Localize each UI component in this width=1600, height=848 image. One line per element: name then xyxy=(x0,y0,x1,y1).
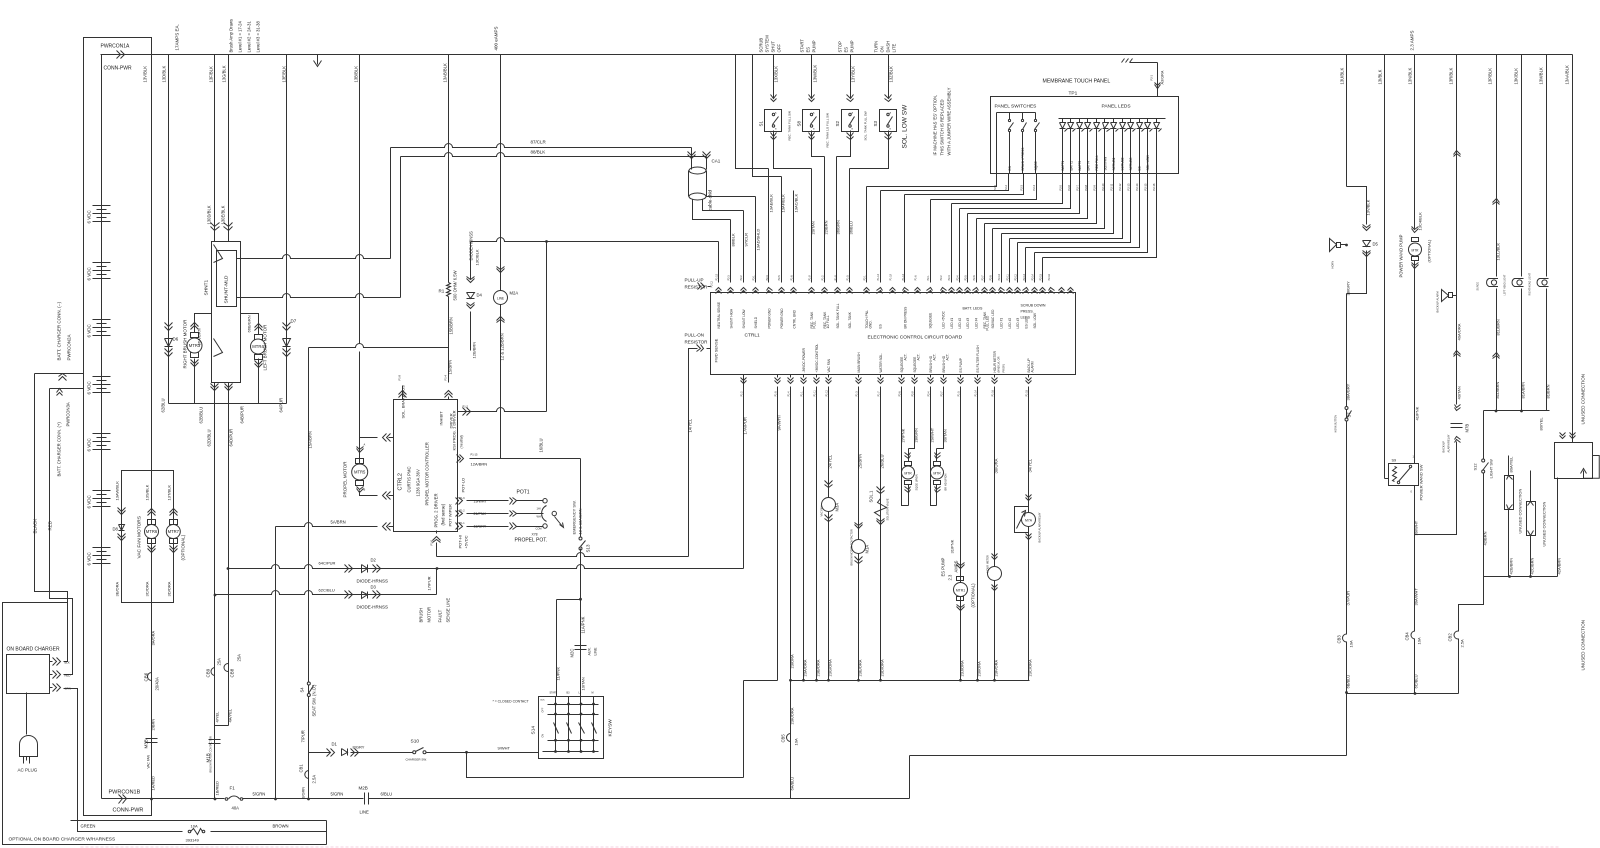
svg-text:SO/VAC LED: SO/VAC LED xyxy=(991,309,995,329)
svg-text:P2-14: P2-14 xyxy=(1135,183,1139,190)
svg-text:OFF: OFF xyxy=(777,44,782,53)
svg-text:10A: 10A xyxy=(1349,640,1354,647)
svg-text:POWER WAND PUMP: POWER WAND PUMP xyxy=(1399,234,1404,277)
svg-text:6C/BLU: 6C/BLU xyxy=(1414,674,1419,688)
svg-text:SURGE: SURGE xyxy=(1477,282,1480,291)
svg-text:6/BLU: 6/BLU xyxy=(381,792,393,797)
svg-text:6 VDC: 6 VDC xyxy=(87,551,92,565)
svg-text:13I/BLK: 13I/BLK xyxy=(1378,69,1383,84)
svg-text:+5VDC: +5VDC xyxy=(464,535,469,548)
svg-text:20/TAN: 20/TAN xyxy=(811,221,816,234)
svg-text:(OPTIONAL): (OPTIONAL) xyxy=(181,534,186,560)
svg-text:23I/ORA: 23I/ORA xyxy=(977,661,982,677)
svg-text:CURTIS PMC: CURTIS PMC xyxy=(407,467,412,493)
svg-text:EMERGENCY SW.: EMERGENCY SW. xyxy=(572,500,577,534)
svg-text:P2-12: P2-12 xyxy=(711,280,714,287)
svg-text:P1-5: P1-5 xyxy=(957,391,960,397)
svg-text:PWRCON1B: PWRCON1B xyxy=(109,790,141,796)
svg-text:DIODE-HRNSS: DIODE-HRNSS xyxy=(357,579,389,584)
svg-text:23G/ORA: 23G/ORA xyxy=(828,659,833,677)
svg-text:P2-9: P2-9 xyxy=(911,391,914,397)
svg-text:S14: S14 xyxy=(531,726,537,735)
svg-text:M2C: M2C xyxy=(570,649,575,658)
svg-text:ON: ON xyxy=(880,46,885,52)
svg-text:VAC FAN MOTORS: VAC FAN MOTORS xyxy=(137,516,143,558)
svg-text:CONN-PWR: CONN-PWR xyxy=(113,808,144,814)
svg-text:ES: ES xyxy=(844,47,849,53)
svg-text:6 VDC: 6 VDC xyxy=(87,380,92,394)
svg-text:13U/BLK: 13U/BLK xyxy=(1340,68,1345,85)
svg-text:10A: 10A xyxy=(794,738,799,745)
svg-text:6B/BLU: 6B/BLU xyxy=(1346,675,1351,689)
svg-text:SCRUB DOWN: SCRUB DOWN xyxy=(1021,304,1046,308)
svg-text:P1-8: P1-8 xyxy=(774,391,777,397)
svg-text:23K/ORA: 23K/ORA xyxy=(790,707,795,724)
svg-text:15B/BRN: 15B/BRN xyxy=(449,317,454,334)
svg-text:BR ON PRESS: BR ON PRESS xyxy=(904,307,908,329)
svg-text:88/BLK: 88/BLK xyxy=(531,150,546,155)
svg-text:PANEL SWITCHES: PANEL SWITCHES xyxy=(995,104,1037,110)
svg-text:BATT1: BATT1 xyxy=(1061,161,1065,171)
svg-text:13C4/BLK: 13C4/BLK xyxy=(1418,212,1423,231)
svg-text:MTR: MTR xyxy=(904,472,912,476)
svg-text:FAULT: FAULT xyxy=(438,609,443,622)
svg-text:S9: S9 xyxy=(1392,459,1397,463)
svg-text:S10: S10 xyxy=(411,739,420,745)
svg-text:LED #2: LED #2 xyxy=(958,318,962,329)
svg-text:LEFT BRUSH MOTOR: LEFT BRUSH MOTOR xyxy=(263,324,268,371)
svg-text:13AE/BLK: 13AE/BLK xyxy=(769,194,774,213)
svg-text:MAIN BRUSH: MAIN BRUSH xyxy=(857,352,861,373)
svg-text:13S/BLK: 13S/BLK xyxy=(145,484,150,500)
svg-text:PUMP: PUMP xyxy=(850,40,855,52)
svg-text:P2-3: P2-3 xyxy=(1019,184,1023,190)
svg-text:LED #3: LED #3 xyxy=(966,318,970,329)
svg-text:HOUR METER: HOUR METER xyxy=(986,555,990,573)
svg-text:P2-3: P2-3 xyxy=(948,275,951,281)
svg-text:PANEL LEDS: PANEL LEDS xyxy=(1102,104,1131,110)
svg-text:13D/BLK: 13D/BLK xyxy=(162,66,167,83)
svg-text:SOL. LOW: SOL. LOW xyxy=(1146,155,1150,170)
svg-text:88/BLK: 88/BLK xyxy=(731,233,736,246)
svg-text:RESISTOR: RESISTOR xyxy=(685,340,709,345)
svg-text:B: B xyxy=(364,488,366,492)
svg-text:M2A: M2A xyxy=(510,291,519,296)
svg-text:P1-16: P1-16 xyxy=(991,389,994,396)
svg-text:ACT.: ACT. xyxy=(917,353,921,360)
svg-text:5/GRN: 5/GRN xyxy=(253,792,266,797)
svg-text:P2-7: P2-7 xyxy=(1075,184,1079,190)
svg-text:12A/BRN: 12A/BRN xyxy=(471,462,488,467)
svg-text:SYSTEM: SYSTEM xyxy=(765,35,770,53)
svg-text:BRUSH MOTOR CONTACTOR: BRUSH MOTOR CONTACTOR xyxy=(209,736,213,772)
svg-text:SHUNT HIGH: SHUNT HIGH xyxy=(729,308,733,328)
svg-text:CB2: CB2 xyxy=(1448,633,1453,642)
svg-text:13B/BLK: 13B/BLK xyxy=(354,66,359,83)
svg-text:500 OHM/ 6.5W: 500 OHM/ 6.5W xyxy=(453,270,458,300)
svg-text:ES: ES xyxy=(1008,166,1012,170)
svg-text:1HI: 1HI xyxy=(537,507,541,511)
svg-text:393149: 393149 xyxy=(186,838,200,843)
svg-text:P2-2: P2-2 xyxy=(940,275,943,281)
svg-text:M7B: M7B xyxy=(1465,424,1470,433)
svg-text:6 VDC: 6 VDC xyxy=(87,266,92,280)
svg-text:P1-2: P1-2 xyxy=(460,510,466,513)
svg-text:23D/ORA: 23D/ORA xyxy=(880,659,885,676)
svg-text:66A/GRN: 66A/GRN xyxy=(197,328,202,345)
svg-text:P1-11: P1-11 xyxy=(813,390,816,397)
svg-text:ES FILTER FLUSH: ES FILTER FLUSH xyxy=(976,345,980,373)
svg-text:LED #4: LED #4 xyxy=(975,318,979,329)
svg-text:P1-18: P1-18 xyxy=(1025,389,1028,396)
svg-text:cable-shld: cable-shld xyxy=(708,189,713,210)
svg-text:POT1: POT1 xyxy=(517,490,530,496)
svg-text:CB6: CB6 xyxy=(144,672,149,681)
svg-text:23C/ORA: 23C/ORA xyxy=(1028,659,1033,676)
svg-text:11A/PNK: 11A/PNK xyxy=(581,616,586,633)
svg-text:CB8: CB8 xyxy=(230,668,235,677)
svg-text:P2-1: P2-1 xyxy=(927,275,930,281)
svg-text:SQGE: SQGE xyxy=(1034,161,1038,170)
svg-text:15/BRN: 15/BRN xyxy=(448,360,453,375)
svg-text:S7: S7 xyxy=(1347,412,1352,418)
svg-text:A: A xyxy=(364,443,366,447)
svg-text:D3: D3 xyxy=(371,585,377,590)
svg-text:REC. TANK FULL SW: REC. TANK FULL SW xyxy=(788,111,792,141)
svg-text:INHIBIT: INHIBIT xyxy=(439,411,444,426)
svg-text:P1-2: P1-2 xyxy=(463,405,469,409)
svg-text:MTR5: MTR5 xyxy=(354,470,366,475)
svg-text:ES: ES xyxy=(1138,166,1142,170)
svg-text:P1-6: P1-6 xyxy=(914,275,917,281)
svg-text:D6: D6 xyxy=(173,337,179,342)
svg-text:SO/VFAN: SO/VFAN xyxy=(1104,156,1108,171)
svg-text:38/GRY: 38/GRY xyxy=(1346,281,1351,295)
svg-text:20/40A: 20/40A xyxy=(155,677,160,690)
svg-text:P2-11: P2-11 xyxy=(1006,274,1009,281)
svg-text:M3A: M3A xyxy=(835,503,840,512)
svg-text:SHNT1: SHNT1 xyxy=(204,279,210,295)
svg-text:A3/GRA: A3/GRA xyxy=(1161,70,1165,84)
svg-text:Level #2 = 24-31: Level #2 = 24-31 xyxy=(247,21,252,53)
svg-text:UNUSED CONNECTION: UNUSED CONNECTION xyxy=(1542,501,1547,546)
svg-text:P2-8: P2-8 xyxy=(989,275,992,281)
svg-text:13LL/BLK: 13LL/BLK xyxy=(1496,243,1501,261)
svg-text:P2-7: P2-7 xyxy=(940,391,943,397)
svg-text:23J/ORA: 23J/ORA xyxy=(960,660,965,677)
svg-text:SHUT: SHUT xyxy=(771,41,776,53)
svg-text:81L/BRN: 81L/BRN xyxy=(1496,319,1501,335)
svg-text:P1-9: P1-9 xyxy=(834,275,837,281)
svg-text:P1-1: P1-1 xyxy=(460,522,466,525)
svg-text:130E/BLK: 130E/BLK xyxy=(221,205,226,224)
svg-text:4A/YEL: 4A/YEL xyxy=(228,708,233,722)
svg-text:M3B: M3B xyxy=(144,739,149,748)
svg-text:BATT. CHARGER CONN. (--): BATT. CHARGER CONN. (--) xyxy=(57,301,62,360)
svg-text:P1-2: P1-2 xyxy=(740,391,743,397)
svg-text:CTRL1: CTRL1 xyxy=(745,333,761,339)
svg-text:2.3 AMPS: 2.3 AMPS xyxy=(1410,30,1415,50)
svg-text:P2-5: P2-5 xyxy=(964,275,967,281)
svg-text:P2-7: P2-7 xyxy=(981,275,984,281)
svg-text:9/WHT: 9/WHT xyxy=(498,746,511,751)
svg-text:SHUNT LOW: SHUNT LOW xyxy=(742,309,746,328)
svg-text:SQUEGEE: SQUEGEE xyxy=(929,313,933,329)
svg-text:5/GRN: 5/GRN xyxy=(331,792,344,797)
svg-text:10A: 10A xyxy=(1417,637,1422,644)
svg-text:LED #3: LED #3 xyxy=(1016,318,1020,329)
svg-text:62/BLU: 62/BLU xyxy=(161,399,166,413)
svg-text:CA1: CA1 xyxy=(712,159,721,164)
svg-text:PROPEL POT.: PROPEL POT. xyxy=(515,538,548,544)
svg-text:P1-7: P1-7 xyxy=(877,391,880,397)
svg-text:S8: S8 xyxy=(797,120,802,126)
svg-text:3D/ORA: 3D/ORA xyxy=(166,581,171,596)
svg-text:P2-2: P2-2 xyxy=(740,275,743,281)
svg-text:REC. TANK 1/2 FULL SW: REC. TANK 1/2 FULL SW xyxy=(826,113,830,148)
svg-text:2/BRN: 2/BRN xyxy=(151,719,156,731)
svg-text:ES PUMP: ES PUMP xyxy=(941,557,946,576)
svg-text:ALARM: ALARM xyxy=(1031,361,1035,372)
svg-text:HOUR METER: HOUR METER xyxy=(993,350,997,372)
svg-text:RED: RED xyxy=(48,520,53,530)
svg-text:12B/BRN: 12B/BRN xyxy=(472,342,477,359)
svg-text:GND.: GND. xyxy=(869,320,873,328)
svg-text:26/BLU: 26/BLU xyxy=(880,455,885,469)
svg-text:15A/BRN: 15A/BRN xyxy=(308,431,313,448)
svg-text:SOL. TANK FULL: SOL. TANK FULL xyxy=(836,303,840,328)
svg-text:6 VDC: 6 VDC xyxy=(87,323,92,337)
svg-text:42B/BRN: 42B/BRN xyxy=(1509,558,1514,575)
svg-text:10/TAN: 10/TAN xyxy=(581,677,586,690)
svg-text:CB9: CB9 xyxy=(206,668,211,677)
svg-text:39A/WHT: 39A/WHT xyxy=(1414,588,1419,606)
svg-text:GREEN: GREEN xyxy=(81,824,96,829)
svg-text:42A/BRN: 42A/BRN xyxy=(1557,558,1562,575)
svg-text:CNTRL GND: CNTRL GND xyxy=(792,309,796,328)
svg-text:13AD/SHLD: 13AD/SHLD xyxy=(756,229,761,251)
svg-text:3A/ORA: 3A/ORA xyxy=(151,630,156,645)
svg-text:VAC FAN: VAC FAN xyxy=(147,754,151,768)
svg-text:SHUNT-MLD: SHUNT-MLD xyxy=(224,275,230,304)
svg-text:LINE: LINE xyxy=(497,297,504,301)
svg-text:AMPS: AMPS xyxy=(954,560,959,572)
svg-text:13V/BLK: 13V/BLK xyxy=(1366,199,1371,215)
svg-text:P1-1: P1-1 xyxy=(800,391,803,397)
svg-text:Level #1 = 17-24: Level #1 = 17-24 xyxy=(238,21,243,53)
svg-text:P2-1: P2-1 xyxy=(1150,74,1154,80)
svg-text:FULL LED: FULL LED xyxy=(986,315,990,330)
svg-text:SCRUB3: SCRUB3 xyxy=(1129,157,1133,170)
svg-text:IF MACHINE HAS 'ES' OPTION,: IF MACHINE HAS 'ES' OPTION, xyxy=(933,95,938,156)
svg-text:23B/ORA: 23B/ORA xyxy=(816,659,821,676)
svg-text:S13: S13 xyxy=(586,544,591,553)
svg-text:F1: F1 xyxy=(230,786,236,791)
svg-text:RIGHT BRUSH MOTOR: RIGHT BRUSH MOTOR xyxy=(183,319,188,369)
svg-text:SOL. TANK FULL SW: SOL. TANK FULL SW xyxy=(864,111,868,140)
svg-text:13T/BLK: 13T/BLK xyxy=(166,485,171,501)
svg-text:WITH A JUMPER WIRE ASSEMBLY: WITH A JUMPER WIRE ASSEMBLY xyxy=(947,87,952,155)
svg-text:3C/ORA: 3C/ORA xyxy=(145,581,150,596)
svg-text:27/PNK: 27/PNK xyxy=(901,428,906,442)
svg-text:P2-15: P2-15 xyxy=(1039,273,1042,280)
svg-text:P1-4: P1-4 xyxy=(787,391,790,397)
svg-text:SENSE LINE: SENSE LINE xyxy=(446,598,451,623)
svg-text:AC PLUG: AC PLUG xyxy=(18,768,38,773)
svg-text:LINE: LINE xyxy=(360,810,370,815)
svg-text:P1-8: P1-8 xyxy=(398,374,402,380)
svg-text:P1-3: P1-3 xyxy=(855,391,858,397)
svg-text:LED #2: LED #2 xyxy=(1008,318,1012,329)
svg-text:P2-3: P2-3 xyxy=(766,275,769,281)
svg-text:(OPTIONAL): (OPTIONAL) xyxy=(1427,239,1432,263)
svg-text:36/BLU: 36/BLU xyxy=(849,221,854,234)
svg-text:VAC FAN: VAC FAN xyxy=(827,358,831,372)
svg-text:13F/BLK: 13F/BLK xyxy=(209,66,214,83)
svg-text:80/YEL: 80/YEL xyxy=(1539,417,1544,431)
svg-text:VAC FAN: VAC FAN xyxy=(820,505,824,516)
svg-text:62D/BLU: 62D/BLU xyxy=(207,430,212,447)
svg-text:THIS SWITCH IS REPLACED: THIS SWITCH IS REPLACED xyxy=(940,99,945,155)
svg-text:S1: S1 xyxy=(759,120,764,126)
svg-text:* = CLOSED CONTACT: * = CLOSED CONTACT xyxy=(493,700,529,704)
svg-text:ES: ES xyxy=(806,47,811,53)
svg-text:30/TAN: 30/TAN xyxy=(943,429,948,442)
svg-text:PWRCON3A: PWRCON3A xyxy=(66,402,71,426)
svg-text:13AF/BLK: 13AF/BLK xyxy=(781,194,786,213)
svg-text:P2-6: P2-6 xyxy=(973,275,976,281)
svg-text:START: START xyxy=(800,39,805,53)
svg-text:CB5: CB5 xyxy=(781,734,786,743)
svg-text:OPTIONAL ON BOARD CHARGER W/HA: OPTIONAL ON BOARD CHARGER W/HARNESS xyxy=(9,837,116,843)
svg-text:P2-14: P2-14 xyxy=(1031,273,1034,280)
svg-text:PROPEL MOTOR CONTROLLER: PROPEL MOTOR CONTROLLER xyxy=(425,442,430,505)
svg-text:19/WHT: 19/WHT xyxy=(474,499,488,503)
svg-text:2.5A: 2.5A xyxy=(312,775,317,784)
svg-text:P2-10: P2-10 xyxy=(998,273,1001,280)
svg-text:UNUSED CONNECTION: UNUSED CONNECTION xyxy=(1581,374,1586,425)
svg-text:POWER WAND SW: POWER WAND SW xyxy=(1419,464,1424,500)
svg-text:39/WHT: 39/WHT xyxy=(1414,520,1419,535)
svg-text:CTRL2: CTRL2 xyxy=(398,473,404,490)
svg-text:SOLUTION VALVE: SOLUTION VALVE xyxy=(886,498,890,520)
svg-text:COM: COM xyxy=(536,527,542,531)
svg-text:10A: 10A xyxy=(191,824,198,829)
svg-text:FULL: FULL xyxy=(813,320,817,328)
svg-text:CONN-PWR: CONN-PWR xyxy=(104,66,132,72)
svg-text:6A/BLU: 6A/BLU xyxy=(790,777,795,791)
svg-text:D7: D7 xyxy=(291,319,297,324)
svg-text:1B/RED: 1B/RED xyxy=(215,781,220,796)
svg-text:9A/WHT: 9A/WHT xyxy=(777,414,782,430)
svg-text:P1-6: P1-6 xyxy=(430,539,434,545)
svg-text:14/YEL: 14/YEL xyxy=(688,418,693,432)
svg-text:M: M xyxy=(592,692,594,695)
svg-text:BLK: BLK xyxy=(541,700,546,702)
svg-text:25/BRN: 25/BRN xyxy=(858,454,863,469)
svg-text:POWER GND: POWER GND xyxy=(768,308,772,329)
svg-text:25A: 25A xyxy=(217,658,222,666)
svg-text:13AW/BLK: 13AW/BLK xyxy=(115,481,120,501)
svg-text:S2: S2 xyxy=(835,120,840,126)
svg-text:PROPEL MOTOR: PROPEL MOTOR xyxy=(343,461,348,498)
svg-text:S4: S4 xyxy=(300,687,305,693)
svg-text:40A/ORA: 40A/ORA xyxy=(1457,323,1462,340)
svg-text:POWER GND: POWER GND xyxy=(780,308,784,329)
svg-text:BACK-UP ALARM RELAY: BACK-UP ALARM RELAY xyxy=(1038,512,1042,542)
svg-text:CB4: CB4 xyxy=(1405,632,1410,641)
svg-text:13N/BLK: 13N/BLK xyxy=(1408,68,1413,85)
svg-text:BATT. LEDS: BATT. LEDS xyxy=(963,307,984,311)
svg-text:PRESS.: PRESS. xyxy=(1021,310,1034,314)
svg-text:P2-4: P2-4 xyxy=(1032,184,1036,190)
svg-text:LEDS: LEDS xyxy=(1021,316,1031,320)
svg-text:13E/BLK: 13E/BLK xyxy=(282,66,287,83)
svg-text:23A/ORA: 23A/ORA xyxy=(803,659,808,676)
svg-text:WATER SOL.: WATER SOL. xyxy=(879,353,883,372)
svg-text:S3: S3 xyxy=(873,120,878,126)
svg-text:SOL.1: SOL.1 xyxy=(869,490,874,503)
svg-text:P1-2: P1-2 xyxy=(821,275,824,281)
svg-text:BACK-UP ALARM: BACK-UP ALARM xyxy=(1436,292,1440,313)
svg-text:START: START xyxy=(550,692,558,695)
svg-text:POT-HI: POT-HI xyxy=(458,535,463,548)
svg-text:17AMPS EA.: 17AMPS EA. xyxy=(175,24,180,50)
svg-text:ON BOARD CHARGER: ON BOARD CHARGER xyxy=(7,647,60,653)
svg-text:POT WIPER: POT WIPER xyxy=(448,504,453,526)
svg-text:18/GRY: 18/GRY xyxy=(474,525,487,529)
svg-text:P2-13: P2-13 xyxy=(1023,273,1026,280)
svg-text:LIGHT SW: LIGHT SW xyxy=(1489,459,1494,478)
svg-text:D1: D1 xyxy=(332,742,338,747)
svg-text:-36VDC-POWER: -36VDC-POWER xyxy=(802,347,806,372)
svg-text:P2-12: P2-12 xyxy=(1014,273,1017,280)
svg-text:6 VDC: 6 VDC xyxy=(87,209,92,223)
svg-text:OFF: OFF xyxy=(542,707,545,712)
svg-text:BATT4: BATT4 xyxy=(1086,161,1090,171)
svg-text:FWD SENSE: FWD SENSE xyxy=(714,338,719,362)
svg-text:DASH: DASH xyxy=(886,41,891,53)
svg-text:P2-16: P2-16 xyxy=(1048,273,1051,280)
svg-text:1A/RED: 1A/RED xyxy=(151,776,156,791)
svg-text:80A/YEL: 80A/YEL xyxy=(1509,456,1514,473)
svg-text:SHIELD: SHIELD xyxy=(754,316,758,328)
svg-text:1236 9GA 36V: 1236 9GA 36V xyxy=(416,469,421,496)
svg-text:13Z/BLK: 13Z/BLK xyxy=(889,66,894,83)
svg-text:13R/BLK: 13R/BLK xyxy=(1449,68,1454,85)
svg-text:HORN: HORN xyxy=(1331,261,1335,269)
svg-text:P2-12: P2-12 xyxy=(1118,183,1122,190)
svg-text:TURN: TURN xyxy=(874,41,879,53)
svg-text:P1-13: P1-13 xyxy=(902,273,905,280)
svg-text:M2B: M2B xyxy=(359,786,368,791)
svg-text:87/CLR: 87/CLR xyxy=(531,140,547,145)
svg-text:P1-6: P1-6 xyxy=(791,275,794,281)
svg-text:MEMBRANE TOUCH PANEL: MEMBRANE TOUCH PANEL xyxy=(1043,79,1111,85)
svg-text:BROWN: BROWN xyxy=(273,824,289,829)
svg-text:AUX.: AUX. xyxy=(588,647,592,655)
svg-text:BATT2: BATT2 xyxy=(1069,161,1073,171)
svg-text:SOL. TANK: SOL. TANK xyxy=(848,311,852,328)
svg-text:64B/PUR: 64B/PUR xyxy=(240,406,245,423)
svg-text:13K/BLK: 13K/BLK xyxy=(1514,68,1519,85)
svg-text:BRUSH MOTOR CONTACTOR: BRUSH MOTOR CONTACTOR xyxy=(850,529,854,565)
svg-text:81D/BRN: 81D/BRN xyxy=(1495,381,1500,398)
svg-text:(neutral): (neutral) xyxy=(460,435,464,448)
svg-text:SOL. LOW SW: SOL. LOW SW xyxy=(902,104,909,149)
svg-text:BACK-UP: BACK-UP xyxy=(1442,441,1446,453)
svg-text:34/YEL: 34/YEL xyxy=(1028,458,1033,472)
